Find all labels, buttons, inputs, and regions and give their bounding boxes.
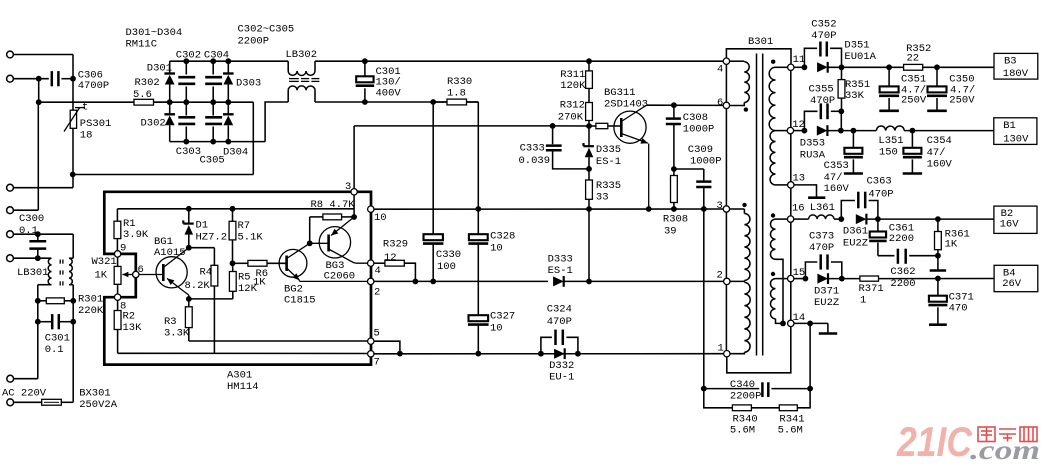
svg-text:120K: 120K [560,80,586,92]
svg-text:100: 100 [437,261,456,273]
svg-text:5.1K: 5.1K [238,231,264,243]
resistor R312 [558,100,593,126]
wire node2 to B301 pin2 [589,280,724,282]
capacitor C351 [879,67,927,111]
svg-text:D301~D304: D301~D304 [126,27,183,39]
pin B301-14 [788,312,806,327]
terminal T5 [7,231,74,238]
internal rail [117,206,354,212]
wire collector to pin6 [647,102,724,108]
svg-text:8.2K: 8.2K [185,280,211,292]
B301 secondary winding 11-12-13 [769,67,788,185]
capacitor C301 130/400V [356,61,402,102]
B301 secondary winding 16-15 [770,219,787,326]
svg-text:C333: C333 [520,143,545,155]
svg-text:C362: C362 [890,266,915,278]
svg-text:R7: R7 [238,220,251,232]
resistor R340 [704,389,758,437]
label AC 220V [2,387,47,399]
svg-text:470P: 470P [809,242,834,254]
resistor R5 [189,263,258,299]
svg-text:150: 150 [879,147,898,159]
svg-text:4700P: 4700P [78,80,110,92]
svg-text:10: 10 [374,212,387,224]
wire pin2 line [374,279,548,285]
wire pin1-pin14 link [727,327,791,373]
B301 primary winding 2-1 [730,282,750,353]
svg-text:R371: R371 [859,283,884,295]
pin B301-1 [718,342,731,357]
svg-text:A1015: A1015 [154,247,186,259]
svg-text:R312: R312 [560,100,585,112]
wire pin14 drop [807,323,813,391]
svg-text:1000P: 1000P [690,155,722,167]
resistor R341 [751,389,810,437]
capacitor C328 [468,209,515,315]
pin 2 [368,278,381,298]
resistor R352 [904,43,932,70]
svg-text:D351: D351 [844,39,869,51]
svg-text:C340: C340 [730,379,755,391]
svg-text:C309: C309 [688,144,713,156]
wire primary pin bus [725,61,727,354]
wire secondary pin bus [790,67,792,323]
wire pin5 jog [374,341,403,356]
svg-text:1K: 1K [253,276,266,288]
svg-text:R335: R335 [596,180,621,192]
svg-text:250V2A: 250V2A [79,399,118,411]
capacitor C340 [704,379,810,402]
svg-text:R341: R341 [779,413,804,425]
svg-text:5.6M: 5.6M [730,425,755,437]
svg-text:3: 3 [717,200,723,212]
diode D301 [147,61,175,102]
pin 9 [114,243,126,258]
svg-text:9: 9 [120,243,126,255]
svg-text:L351: L351 [878,135,903,147]
svg-text:W321: W321 [92,256,117,268]
inductor LB302 [286,49,320,102]
inductor L351 [876,126,993,159]
ferrite bead base [589,123,621,128]
svg-text:26V: 26V [1002,278,1022,290]
wire C309 drop to C340 [701,209,707,392]
capacitor C373 [805,231,841,279]
resistor R308 [663,169,688,237]
svg-text:R340: R340 [733,413,758,425]
varistor PS301 [64,102,111,142]
svg-text:160V: 160V [927,158,953,170]
phase dot s3 [771,272,775,276]
svg-text:3.3K: 3.3K [164,328,190,340]
svg-text:D371: D371 [814,285,839,297]
pin 8 [114,294,126,312]
capacitor C305 [200,102,225,166]
svg-text:R8 4.7K: R8 4.7K [311,199,356,211]
svg-text:C355: C355 [809,83,834,95]
resistor R335 [586,169,622,209]
wire pin15 row [794,276,808,282]
svg-text:R4: R4 [200,267,213,279]
svg-text:C373: C373 [809,231,834,243]
transistor BG311 2SD1403 [604,87,649,209]
wire T2 branch down [36,79,42,105]
ground R361 [930,256,946,271]
svg-text:C302: C302 [176,49,201,61]
svg-text:0.039: 0.039 [519,155,551,167]
wire D333 riser [588,209,590,281]
pin 10 [368,206,387,224]
svg-text:C330: C330 [436,249,461,261]
resistor R351 [838,67,870,114]
svg-text:1.8: 1.8 [447,87,466,99]
capacitor C309 [674,144,722,209]
svg-text:5.6M: 5.6M [778,425,803,437]
svg-text:270K: 270K [558,111,584,123]
svg-text:18: 18 [80,129,93,141]
watermark com [970,435,1040,465]
terminal T2 [7,75,49,82]
svg-text:470P: 470P [547,316,572,328]
svg-text:16V: 16V [1000,218,1020,230]
svg-text:D361: D361 [843,225,868,237]
svg-text:R301: R301 [78,294,103,306]
svg-text:HZ7.2: HZ7.2 [196,231,228,243]
svg-text:14: 14 [793,312,806,324]
box B4 [994,265,1038,291]
svg-text:C308: C308 [683,112,708,124]
svg-text:C327: C327 [490,310,515,322]
wire D1 to R4 [189,248,215,266]
capacitor C355 [804,83,841,130]
bridge top rail [170,58,289,64]
svg-text:C305: C305 [200,154,225,166]
pin 3 [345,181,357,195]
diode D371 [814,273,860,309]
svg-text:12: 12 [384,252,397,264]
diode D353 [800,125,877,161]
transistor BG1 A1015 [139,236,189,299]
resistor R311 [560,61,592,102]
diode D304 [223,102,248,158]
resistor R301 [38,294,104,317]
resistor R8 [310,199,356,244]
capacitor C300 body [29,234,46,258]
wire B+ top rail [315,58,726,64]
svg-text:A301: A301 [227,369,252,381]
svg-text:3.9K: 3.9K [123,229,149,241]
capacitor C301 0.1 [35,301,76,356]
terminal T6 [7,255,52,262]
svg-text:C354: C354 [927,135,952,147]
pin B301-11 [788,54,806,70]
svg-text:33K: 33K [845,90,865,102]
box B2 [994,206,1037,233]
svg-text:B301: B301 [748,36,773,48]
svg-text:D353: D353 [800,137,825,149]
svg-text:BG311: BG311 [604,87,636,99]
pin B301-16 [787,202,804,222]
svg-text:470P: 470P [811,30,836,42]
capacitor C308 [666,105,715,172]
B301 core [757,54,763,356]
svg-text:C303: C303 [176,146,201,158]
zener D1 [183,209,227,251]
resistor R1 [114,209,149,254]
svg-text:.com: .com [970,435,1040,465]
svg-text:D303: D303 [236,78,261,90]
pin B301-12 [787,119,805,134]
svg-text:250V: 250V [949,94,975,106]
svg-text:130V: 130V [1003,133,1029,145]
svg-text:1K: 1K [945,238,958,250]
svg-text:C300: C300 [19,213,44,225]
wire pin10 to B301 pin3 [374,206,726,212]
capacitor C300 [19,213,44,237]
diode D351 [817,39,994,72]
svg-text:R329: R329 [383,238,408,250]
svg-text:47/: 47/ [927,147,946,159]
svg-text:t: t [82,102,88,114]
svg-text:6: 6 [138,264,144,276]
svg-text:2: 2 [374,286,380,298]
pin 4 [368,260,381,277]
phase dot s1 [771,60,775,64]
resistor R361 [935,219,970,259]
terminal T1 (AC line upper) [7,51,73,58]
capacitor C371 [928,279,973,325]
capacitor C361 [869,219,914,256]
pin B301-15 [788,267,806,282]
capacitor C303 [176,102,201,158]
pin 5 [368,328,380,345]
wire T1 to PS301 [72,55,74,111]
transformer LB301 [17,258,73,285]
svg-text:8: 8 [120,300,126,312]
svg-text:R5: R5 [238,272,251,284]
svg-text:470P: 470P [868,188,893,200]
svg-text:LB302: LB302 [286,49,318,61]
svg-text:4: 4 [375,265,381,277]
svg-text:D1: D1 [196,220,209,232]
wire pin14 row [794,321,828,327]
svg-text:D301: D301 [147,63,172,75]
phase dot s2 [771,213,775,217]
svg-text:C301: C301 [45,332,70,344]
capacitor C302 [176,49,201,102]
wire pin7 to B301 pin1 [374,351,723,357]
wire pin12 row [794,128,808,134]
svg-text:C353: C353 [824,160,849,172]
svg-text:4: 4 [717,63,723,75]
svg-text:180V: 180V [1003,68,1029,80]
svg-text:1: 1 [860,294,866,306]
wire node3 riser [351,126,357,220]
svg-text:C1815: C1815 [284,294,316,306]
svg-text:2200: 2200 [889,233,914,245]
IC A301 box outline [104,192,371,365]
wire pin11 row [794,64,807,70]
svg-text:250V: 250V [901,94,927,106]
wire node7 line [118,352,368,354]
svg-text:2200P: 2200P [238,35,270,47]
wire top jumper [726,49,791,64]
label B301 [748,36,773,48]
diode D333 [548,253,592,287]
label A301 HM114 [227,369,259,393]
svg-text:C352: C352 [811,18,836,30]
capacitor C362 [878,249,938,290]
svg-text:3: 3 [345,181,351,193]
pin B301-6 [717,97,730,109]
svg-text:HM114: HM114 [227,381,259,393]
wire C330 feed [432,102,434,234]
svg-text:C328: C328 [490,230,515,242]
svg-text:ES-1: ES-1 [548,265,573,277]
pot W321 [92,254,136,297]
terminal T4 (degauss) [7,207,39,214]
bridge bottom rail [170,139,265,145]
svg-text:C324: C324 [547,303,572,315]
svg-text:11: 11 [793,54,806,66]
svg-text:BX301: BX301 [79,388,111,400]
svg-text:39: 39 [664,225,677,237]
resistor R7 [229,209,263,266]
pin 7 [368,351,380,369]
svg-text:RM11C: RM11C [126,38,158,50]
svg-text:33: 33 [596,192,609,204]
wire T5 riser to LB301 [72,234,74,258]
B301 secondary winding 15-14 [770,279,787,324]
svg-text:C2060: C2060 [324,271,356,283]
resistor R329 [374,238,418,284]
svg-text:C363: C363 [867,175,892,187]
label D301~D304 RM11C [126,27,183,51]
B301 primary winding 4-6 [730,61,749,105]
capacitor C353 [824,131,863,195]
resistor R6 [233,260,287,288]
transistor BG2 C1815 [279,243,367,306]
svg-text:470: 470 [949,302,968,314]
watermark dianziwang [978,427,1037,442]
svg-text:L361: L361 [810,202,835,214]
terminal T8 and fuse BX301 [7,322,73,406]
svg-text:5.6: 5.6 [133,89,152,101]
terminal T3 (degauss) [7,184,73,191]
capacitor C330 [423,234,461,281]
diode D361 [843,214,994,250]
transistor BG3 C2060 [307,217,368,283]
pin B301-13 [788,173,806,188]
capacitor C306 [52,69,109,92]
capacitor C363 [841,175,893,219]
svg-text:10: 10 [490,323,503,335]
svg-text:21IC: 21IC [896,418,972,465]
svg-text:6: 6 [717,97,723,109]
capacitor C304 [204,49,229,102]
svg-text:EU2Z: EU2Z [843,237,868,249]
ground pin14 [819,323,837,333]
svg-text:13K: 13K [123,322,143,334]
svg-text:C302~C305: C302~C305 [238,24,295,36]
svg-text:1000P: 1000P [683,123,715,135]
capacitor C333 [519,126,592,172]
diode D303 [223,61,261,102]
capacitor C327 [468,310,515,356]
inductor L361 [794,202,844,222]
svg-text:220K: 220K [78,305,104,317]
wire PS301 bottom [70,128,76,187]
svg-text:2SD1403: 2SD1403 [604,98,648,110]
svg-text:D335: D335 [596,144,621,156]
wire PS301 to bridge middle rail [73,102,254,174]
svg-text:1K: 1K [95,269,108,281]
svg-text:47/: 47/ [824,172,843,184]
svg-text:EU01A: EU01A [844,51,876,63]
pin B301-3 [717,200,730,212]
svg-text:2200P: 2200P [730,390,762,402]
resistor R302 [39,77,170,105]
wire B- bottom rail [315,99,478,105]
resistor R3 [164,296,192,341]
svg-text:RU3A: RU3A [800,149,826,161]
svg-text:7: 7 [374,356,380,368]
box B1 [994,118,1037,146]
svg-text:10: 10 [490,242,503,254]
svg-text:C304: C304 [204,49,229,61]
capacitor C354 [903,131,953,174]
ground pin13 [794,185,825,198]
capacitor C324 [541,303,578,353]
resistor R371 [859,276,995,307]
resistor R330 [433,76,478,105]
svg-text:B1: B1 [1003,120,1016,132]
capacitor C352 [804,18,841,67]
svg-text:22: 22 [907,52,920,64]
svg-text:D333: D333 [548,253,573,265]
wire node5 line [189,340,368,342]
svg-text:13: 13 [793,173,806,185]
terminal T7 [7,322,38,382]
phase dot w1 [744,107,748,111]
wire LB301 left down [35,285,41,304]
svg-text:400V: 400V [376,87,402,99]
svg-text:1: 1 [718,342,724,354]
resistor R2 [114,297,142,353]
wire LB301 right down [70,285,76,304]
svg-text:470P: 470P [810,95,835,107]
svg-text:2200: 2200 [890,278,915,290]
wire base drive line [354,123,592,129]
svg-text:D332: D332 [549,360,574,372]
watermark 21IC [896,418,972,465]
diode D332 [549,348,574,383]
svg-text:2: 2 [717,269,723,281]
zener D335 [584,126,622,169]
svg-text:R308: R308 [663,213,688,225]
svg-text:R330: R330 [447,76,472,88]
svg-text:EU-1: EU-1 [549,372,574,384]
svg-text:D302: D302 [141,118,166,130]
svg-text:0.1: 0.1 [45,344,64,356]
resistor R4 [185,265,218,353]
svg-text:16: 16 [792,202,805,214]
capacitor C350 [927,67,975,111]
B301 primary winding 3-2 [730,209,750,281]
pin 6 [133,264,144,278]
svg-text:D304: D304 [223,147,248,159]
wire R330 drop [475,102,481,212]
